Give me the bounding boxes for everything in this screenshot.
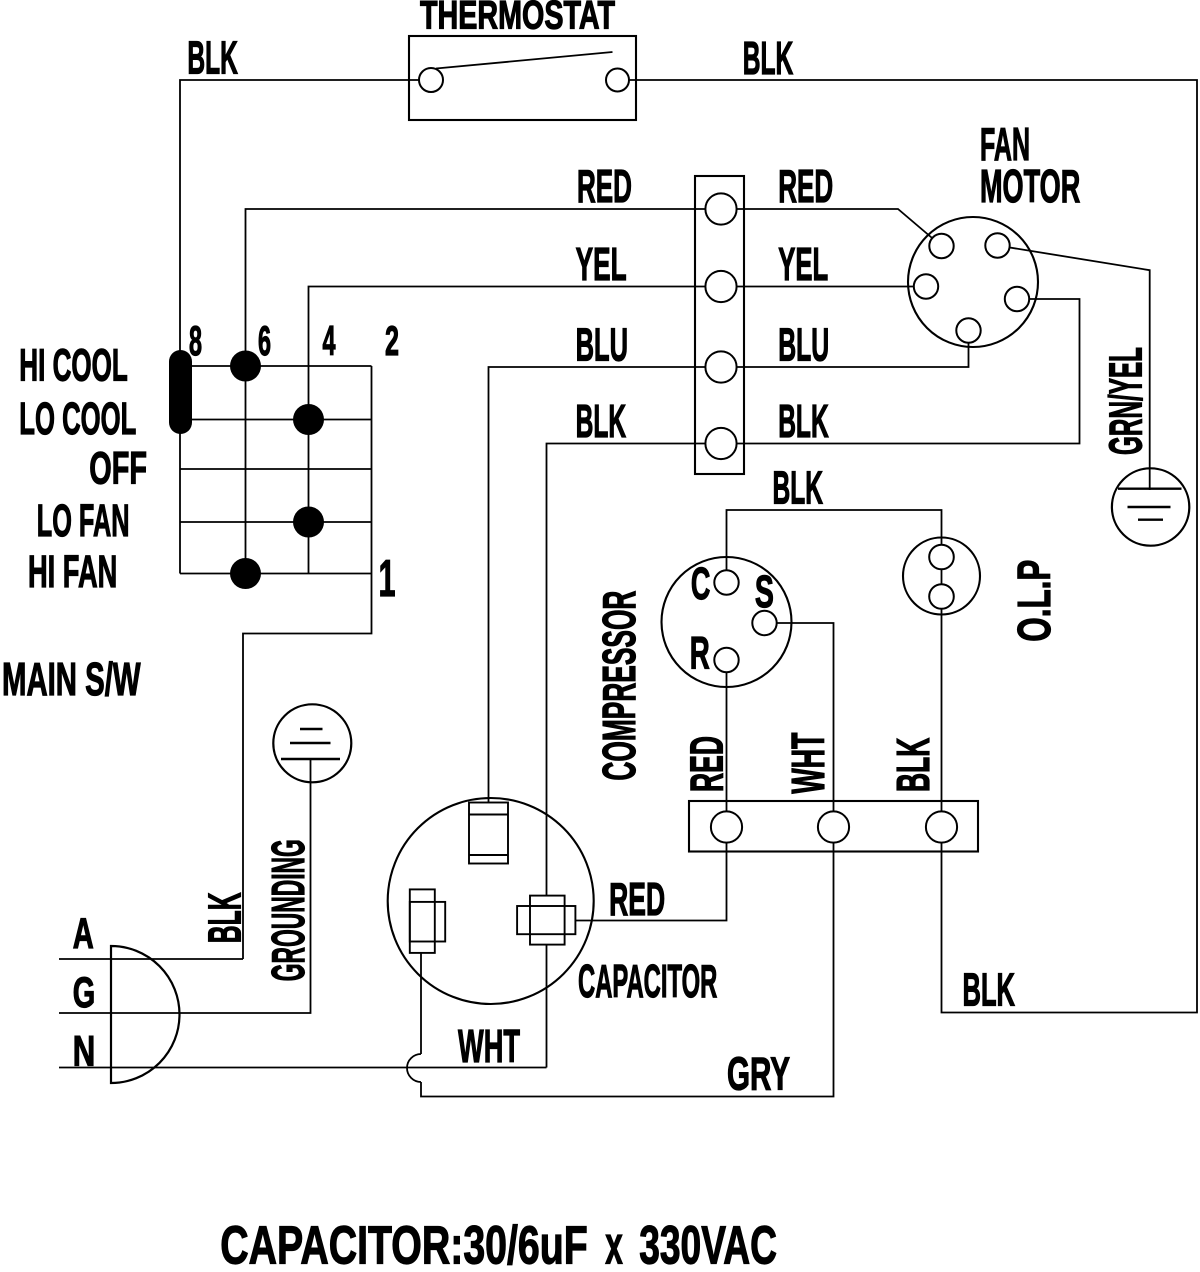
svg-text:OFF: OFF	[89, 443, 147, 494]
svg-text:BLK: BLK	[778, 395, 829, 447]
svg-text:GRY: GRY	[727, 1048, 790, 1100]
svg-text:COMPRESSOR: COMPRESSOR	[593, 591, 645, 781]
svg-text:6: 6	[258, 317, 271, 364]
svg-text:WHT: WHT	[782, 733, 834, 794]
svg-text:RED: RED	[577, 160, 632, 212]
svg-text:RED: RED	[680, 736, 732, 792]
svg-text:WHT: WHT	[458, 1020, 520, 1072]
svg-text:BLK: BLK	[773, 462, 824, 514]
svg-text:4: 4	[323, 317, 336, 364]
svg-text:S: S	[755, 566, 774, 617]
svg-text:LO COOL: LO COOL	[19, 393, 136, 444]
svg-text:A: A	[73, 910, 94, 958]
svg-text:MOTOR: MOTOR	[980, 160, 1080, 212]
svg-text:GRN/YEL: GRN/YEL	[1100, 347, 1152, 455]
svg-text:GROUNDING: GROUNDING	[262, 839, 314, 981]
svg-text:RED: RED	[778, 160, 833, 212]
svg-text:x: x	[605, 1216, 623, 1272]
svg-text:G: G	[73, 969, 96, 1017]
svg-text:BLU: BLU	[778, 319, 829, 371]
svg-text:HI FAN: HI FAN	[28, 546, 117, 597]
svg-text:BLK: BLK	[199, 892, 251, 943]
svg-text:1: 1	[379, 550, 396, 608]
svg-text:BLK: BLK	[187, 32, 238, 84]
svg-text:BLK: BLK	[576, 395, 627, 447]
svg-text:YEL: YEL	[576, 238, 627, 290]
svg-text:CAPACITOR: CAPACITOR	[578, 955, 717, 1007]
svg-text:O.L.P: O.L.P	[1008, 560, 1060, 642]
svg-text:YEL: YEL	[778, 238, 828, 290]
svg-text:2: 2	[385, 317, 399, 364]
svg-text:THERMOSTAT: THERMOSTAT	[420, 0, 615, 38]
svg-text:330VAC: 330VAC	[639, 1216, 777, 1272]
svg-text:MAIN S/W: MAIN S/W	[2, 653, 141, 705]
svg-text:HI COOL: HI COOL	[19, 340, 128, 391]
svg-text:BLK: BLK	[963, 964, 1016, 1016]
svg-text:LO FAN: LO FAN	[37, 495, 130, 546]
svg-text:BLU: BLU	[576, 319, 628, 371]
svg-text:8: 8	[189, 317, 202, 364]
svg-text:C: C	[691, 558, 711, 609]
svg-text:R: R	[690, 628, 710, 679]
svg-text:RED: RED	[609, 873, 665, 925]
svg-text:N: N	[73, 1028, 96, 1076]
svg-text:BLK: BLK	[887, 738, 939, 792]
svg-text:CAPACITOR:30/6uF: CAPACITOR:30/6uF	[220, 1216, 588, 1272]
svg-text:BLK: BLK	[743, 32, 794, 84]
